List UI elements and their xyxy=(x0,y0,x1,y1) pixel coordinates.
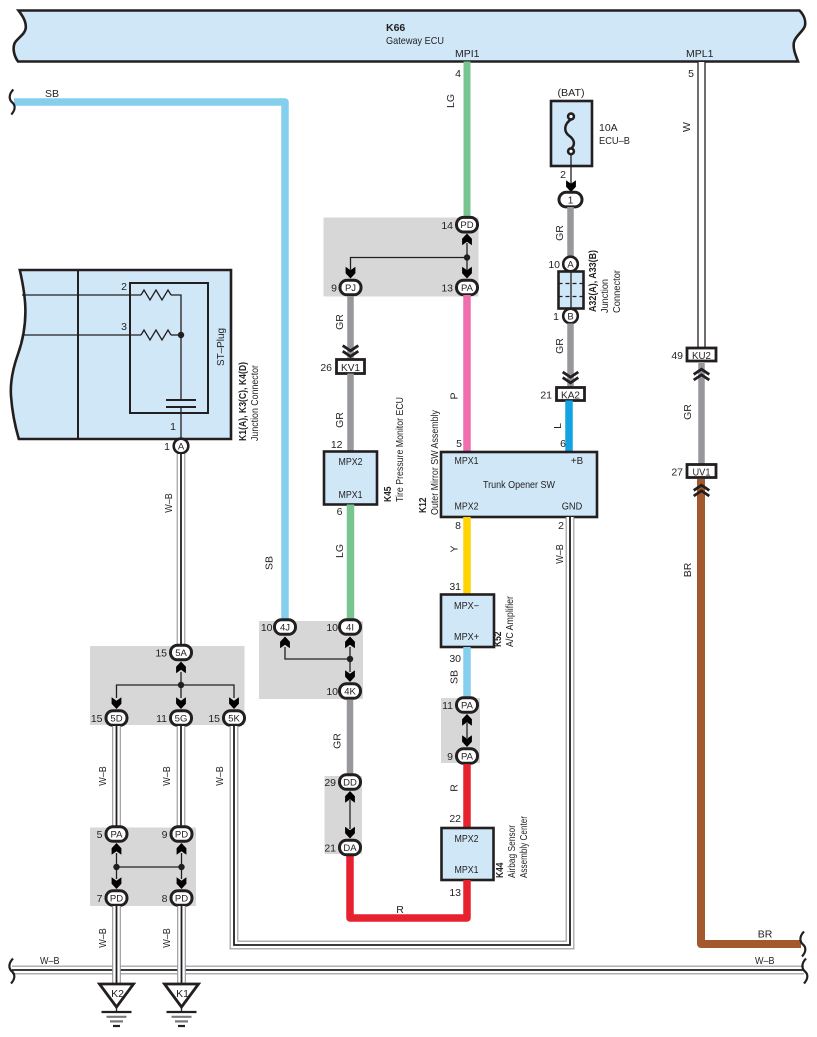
connector KA2 pin 21 xyxy=(540,388,584,402)
break squiggle bus left xyxy=(9,959,14,984)
connector oval PA pin 9 xyxy=(447,749,477,764)
gray junction block PA/PD/PD/PD xyxy=(90,828,196,907)
node junction dot right xyxy=(178,864,184,870)
wire W-B 5K to GND loop xyxy=(230,517,574,949)
switch K12 Trunk Opener SW xyxy=(417,409,597,517)
svg-text:Y: Y xyxy=(449,545,461,552)
svg-text:14: 14 xyxy=(441,220,453,232)
arrow down into PA lower xyxy=(462,735,472,747)
connector oval 1 xyxy=(559,192,582,207)
svg-text:MPX1: MPX1 xyxy=(455,456,479,467)
svg-text:B: B xyxy=(567,312,573,323)
svg-text:1: 1 xyxy=(568,196,574,207)
svg-text:3: 3 xyxy=(121,321,127,333)
connector oval PA pin 11 xyxy=(442,698,477,713)
svg-text:4I: 4I xyxy=(346,623,354,634)
svg-text:GR: GR xyxy=(554,225,566,241)
svg-text:2: 2 xyxy=(121,281,127,293)
svg-text:27: 27 xyxy=(671,467,683,479)
connector oval DA pin 21 xyxy=(324,840,360,855)
svg-text:BR: BR xyxy=(758,929,773,941)
svg-text:31: 31 xyxy=(449,581,461,593)
ECU K66 Gateway ECU band xyxy=(14,11,806,62)
component label A32(A), A33(B) Junction Connector xyxy=(587,250,623,313)
node junction dot xyxy=(178,332,184,338)
wire BR xyxy=(701,479,801,944)
svg-text:LG: LG xyxy=(334,544,346,558)
node junction dot left xyxy=(113,864,119,870)
svg-text:15: 15 xyxy=(208,713,220,725)
svg-text:Outer Mirror SW Assembly: Outer Mirror SW Assembly xyxy=(429,409,441,515)
svg-text:Gateway ECU: Gateway ECU xyxy=(386,35,444,47)
connector oval PD pin 7 xyxy=(97,891,127,906)
chevron below UV1 xyxy=(694,485,710,496)
arrow up into PD xyxy=(462,234,472,246)
arrow down into 5K xyxy=(229,697,239,709)
node line dot to PJ xyxy=(351,258,468,271)
branch line 5D 5G 5K xyxy=(117,685,235,698)
connector oval DD pin 29 xyxy=(324,775,360,790)
svg-text:26: 26 xyxy=(320,362,332,374)
svg-text:11: 11 xyxy=(156,713,167,725)
svg-text:5D: 5D xyxy=(110,714,122,725)
fuse 10A ECU-B xyxy=(551,87,630,166)
svg-text:P: P xyxy=(449,392,461,399)
svg-text:49: 49 xyxy=(671,350,683,362)
wire node to capacitor xyxy=(180,335,182,399)
svg-text:4K: 4K xyxy=(344,687,356,698)
arrow down into PJ xyxy=(346,267,356,279)
connector oval PA pin 13 xyxy=(441,280,477,295)
svg-text:MPX+: MPX+ xyxy=(454,632,479,643)
svg-text:K1: K1 xyxy=(176,988,189,1000)
svg-text:PD: PD xyxy=(175,830,188,841)
shaft DD to DA xyxy=(349,800,351,829)
connector oval PD pin 8 xyxy=(162,891,192,906)
svg-text:4: 4 xyxy=(455,68,461,80)
wire GR PJ to KV1 xyxy=(347,296,354,360)
svg-text:K45: K45 xyxy=(382,486,394,502)
ground bus W-B xyxy=(12,966,804,974)
svg-text:GR: GR xyxy=(682,404,694,420)
wire W-B 5G to PD xyxy=(177,726,185,826)
svg-text:SB: SB xyxy=(264,556,276,570)
gray junction block 4J/4I/4K xyxy=(259,621,363,699)
svg-text:12: 12 xyxy=(331,439,343,451)
svg-text:1: 1 xyxy=(553,311,559,323)
arrow down into DA xyxy=(345,827,355,839)
node junction dot 5A block xyxy=(178,682,184,688)
svg-text:MPX2: MPX2 xyxy=(455,502,479,513)
svg-text:PD: PD xyxy=(110,894,123,905)
svg-text:5: 5 xyxy=(688,68,694,80)
connector oval PD pin 14 xyxy=(441,217,477,232)
wire Y xyxy=(463,517,471,595)
svg-text:30: 30 xyxy=(449,653,461,665)
svg-text:5: 5 xyxy=(456,438,462,450)
connector circle A xyxy=(164,439,188,454)
svg-text:PA: PA xyxy=(111,830,124,841)
svg-text:GR: GR xyxy=(554,338,566,354)
junction connector A32(A), A33(B) xyxy=(559,272,584,309)
wire SB from gateway xyxy=(14,102,285,619)
svg-text:GR: GR xyxy=(334,412,346,428)
svg-text:PJ: PJ xyxy=(345,283,356,294)
svg-text:7: 7 xyxy=(97,893,103,905)
wire resistor2 to node xyxy=(171,295,181,335)
break squiggle BR right xyxy=(800,932,805,957)
svg-text:(BAT): (BAT) xyxy=(558,87,585,99)
svg-text:1: 1 xyxy=(164,441,170,453)
capacitor C xyxy=(166,400,196,407)
arrow up into 5A xyxy=(176,662,186,674)
svg-text:Airbag Sensor: Airbag Sensor xyxy=(506,825,518,878)
chevron into KA2 xyxy=(563,372,579,383)
connector oval 4I pin 10 xyxy=(326,620,360,635)
shaft PA to PA xyxy=(466,723,468,738)
svg-text:15: 15 xyxy=(91,713,103,725)
arrow down into 5G xyxy=(176,697,186,709)
svg-text:ECU–B: ECU–B xyxy=(599,135,630,147)
connector UV1 pin 27 xyxy=(671,465,716,479)
connector oval 5D pin 15 xyxy=(91,711,127,726)
svg-text:DA: DA xyxy=(343,843,357,854)
wire W-B A to 5A xyxy=(177,454,185,644)
connector oval 5G pin 11 xyxy=(156,711,191,726)
chevron into KV1 xyxy=(343,346,359,357)
resistor R (pin 2) xyxy=(141,290,171,300)
wire W from MPL1 pin 5 xyxy=(698,62,705,348)
svg-text:22: 22 xyxy=(449,813,461,825)
svg-text:W–B: W–B xyxy=(97,766,109,786)
svg-text:+B: +B xyxy=(571,456,584,467)
svg-text:R: R xyxy=(396,904,404,916)
svg-text:GND: GND xyxy=(562,502,583,513)
break squiggle SB left xyxy=(10,90,15,115)
svg-text:15: 15 xyxy=(155,648,167,660)
svg-text:ST–Plug: ST–Plug xyxy=(215,328,227,366)
connector oval 5A pin 15 xyxy=(155,645,191,660)
gray junction block DD/DA xyxy=(325,776,363,854)
wire GR B to KA2 xyxy=(567,324,574,388)
branch line PA-PD block xyxy=(117,866,182,868)
svg-text:W: W xyxy=(681,122,693,132)
svg-text:BR: BR xyxy=(682,562,694,577)
wire GR KV1 to K45 xyxy=(347,374,354,453)
svg-text:MPX2: MPX2 xyxy=(455,834,479,845)
arrow up into PD pin 9 xyxy=(177,843,187,855)
svg-text:KA2: KA2 xyxy=(561,390,580,402)
svg-text:PD: PD xyxy=(175,894,188,905)
svg-text:W–B: W–B xyxy=(554,544,566,564)
wire pin 2 lead xyxy=(22,294,141,296)
svg-text:13: 13 xyxy=(441,283,453,295)
connector oval PJ pin 9 xyxy=(331,280,361,295)
svg-text:PA: PA xyxy=(461,701,474,712)
svg-text:Connector: Connector xyxy=(611,270,623,313)
shaft PA to dot left xyxy=(116,853,118,879)
svg-text:K1(A), K3(C), K4(D): K1(A), K3(C), K4(D) xyxy=(237,362,249,441)
svg-text:13: 13 xyxy=(449,887,461,899)
arrow down into PA xyxy=(462,267,472,279)
component label K1(A), K3(C), K4(D) Junction Connector xyxy=(237,362,261,441)
svg-text:11: 11 xyxy=(442,700,453,712)
svg-text:R: R xyxy=(449,784,461,792)
connector KV1 pin 26 xyxy=(320,360,364,375)
arrow up into PA pin 5 xyxy=(112,843,122,855)
ST-Plug inner box xyxy=(130,283,227,413)
wire fuse to connector 1 xyxy=(570,154,572,185)
svg-text:9: 9 xyxy=(331,283,337,295)
connector circle B junction xyxy=(553,309,578,324)
arrow into connector 1 xyxy=(566,180,576,192)
svg-text:K2: K2 xyxy=(111,988,124,1000)
gray junction block PA/PA xyxy=(441,698,480,763)
junction connector K1(A), K3(C), K4(D) block xyxy=(11,270,231,439)
svg-text:MPX−: MPX− xyxy=(454,601,479,612)
connector circle A junction xyxy=(548,257,577,272)
svg-text:GR: GR xyxy=(332,733,344,749)
resistor R (pin 3) xyxy=(141,330,171,340)
gray junction block PD/PJ/PA xyxy=(324,218,479,297)
wire SB K52 to PA xyxy=(463,647,471,697)
svg-text:MPL1: MPL1 xyxy=(686,48,714,60)
break squiggle bus right xyxy=(802,959,807,984)
svg-text:Tire Pressure Monitor ECU: Tire Pressure Monitor ECU xyxy=(394,397,406,502)
svg-text:PA: PA xyxy=(461,283,474,294)
svg-text:PD: PD xyxy=(460,220,473,231)
arrow up into DD xyxy=(345,791,355,803)
wire P xyxy=(463,295,471,452)
svg-text:LG: LG xyxy=(445,94,457,108)
svg-text:9: 9 xyxy=(162,829,168,841)
connector oval 5K pin 15 xyxy=(208,711,244,726)
wire W-B PD8 to ground K1 xyxy=(178,906,186,984)
svg-text:MPX2: MPX2 xyxy=(339,457,363,468)
svg-text:1: 1 xyxy=(170,421,176,433)
node line PD to dot xyxy=(466,243,468,270)
connector KU2 pin 49 xyxy=(671,348,716,362)
wire capacitor to pin 1 xyxy=(180,408,182,438)
svg-text:8: 8 xyxy=(162,893,168,905)
svg-text:A: A xyxy=(567,260,574,271)
svg-text:Junction Connector: Junction Connector xyxy=(249,365,261,441)
node line 4J to dot xyxy=(285,647,350,659)
arrow up into 4J xyxy=(280,637,290,649)
svg-text:Junction: Junction xyxy=(599,279,611,313)
svg-text:L: L xyxy=(552,423,564,429)
svg-text:5K: 5K xyxy=(228,714,240,725)
svg-text:K12: K12 xyxy=(417,497,429,513)
wire GR KU2 to UV1 xyxy=(698,363,705,465)
svg-text:MPI1: MPI1 xyxy=(455,48,480,60)
arrow down into 4K xyxy=(345,670,355,682)
wire LG K45 to 4I xyxy=(347,505,355,620)
svg-text:MPX1: MPX1 xyxy=(339,490,363,501)
arrow up into PA upper xyxy=(462,714,472,726)
svg-text:2: 2 xyxy=(558,520,564,532)
node junction dot 4 block xyxy=(347,656,353,662)
svg-text:9: 9 xyxy=(447,751,453,763)
svg-text:GR: GR xyxy=(334,314,346,330)
svg-text:W–B: W–B xyxy=(214,766,226,786)
svg-text:10: 10 xyxy=(261,622,273,634)
wire resistor3 to node xyxy=(171,334,181,336)
wire W-B PD7 to ground K2 xyxy=(113,906,121,984)
svg-text:A: A xyxy=(178,442,185,453)
svg-text:6: 6 xyxy=(337,506,343,518)
wire L xyxy=(565,401,573,453)
wire GR fuse column upper xyxy=(567,207,574,257)
connector oval PD pin 9 xyxy=(162,827,192,842)
wire GR 4K to DD xyxy=(347,700,354,776)
svg-text:2: 2 xyxy=(560,169,566,181)
wire pin 3 lead xyxy=(22,334,141,336)
svg-text:Assembly Center: Assembly Center xyxy=(518,816,530,878)
svg-text:DD: DD xyxy=(343,778,357,789)
svg-text:K52: K52 xyxy=(492,631,504,647)
svg-text:5: 5 xyxy=(97,829,103,841)
svg-text:5A: 5A xyxy=(175,648,187,659)
ground K1 xyxy=(165,984,199,1026)
svg-text:21: 21 xyxy=(324,843,336,855)
arrow down into PD pin 8 xyxy=(177,877,187,889)
ground K2 xyxy=(100,984,134,1026)
chevron below KU2 xyxy=(694,369,710,380)
svg-text:KV1: KV1 xyxy=(341,362,360,374)
connector oval 4K pin 10 xyxy=(326,684,360,699)
gray junction block 5A/5D/5G/5K xyxy=(90,646,245,725)
arrow down into PD pin 7 xyxy=(112,877,122,889)
svg-text:SB: SB xyxy=(45,88,59,100)
svg-text:MPX1: MPX1 xyxy=(455,865,479,876)
wire R PA to K44 xyxy=(463,764,471,829)
svg-text:10A: 10A xyxy=(599,122,618,134)
svg-text:K44: K44 xyxy=(494,862,506,878)
arrow up into 4I xyxy=(345,637,355,649)
svg-text:W–B: W–B xyxy=(161,928,173,948)
svg-text:W–B: W–B xyxy=(161,766,173,786)
svg-text:W–B: W–B xyxy=(97,928,109,948)
amplifier K52 A/C Amplifier xyxy=(441,595,516,648)
svg-text:10: 10 xyxy=(548,259,560,271)
svg-text:W–B: W–B xyxy=(163,493,175,513)
connector oval 4J pin 10 xyxy=(261,620,296,635)
svg-text:W–B: W–B xyxy=(755,955,775,967)
svg-text:5G: 5G xyxy=(175,714,188,725)
svg-text:SB: SB xyxy=(449,670,461,684)
arrow down into 5D xyxy=(112,697,122,709)
svg-text:PA: PA xyxy=(461,752,474,763)
svg-text:29: 29 xyxy=(324,777,336,789)
svg-text:21: 21 xyxy=(540,390,552,402)
shaft 5A to dot xyxy=(180,672,182,698)
svg-text:A/C Amplifier: A/C Amplifier xyxy=(504,596,516,647)
svg-text:10: 10 xyxy=(326,686,338,698)
svg-text:Trunk Opener SW: Trunk Opener SW xyxy=(483,479,555,491)
connector oval PA pin 5 xyxy=(97,827,127,842)
node junction dot PD block xyxy=(464,254,470,260)
svg-text:4J: 4J xyxy=(280,623,290,634)
svg-text:W–B: W–B xyxy=(40,955,60,967)
sensor K44 Airbag Sensor Assembly Center xyxy=(442,816,531,880)
svg-text:8: 8 xyxy=(455,520,461,532)
svg-text:A32(A), A33(B): A32(A), A33(B) xyxy=(587,250,599,312)
svg-text:10: 10 xyxy=(326,622,338,634)
wire W-B 5D to PA xyxy=(113,726,121,826)
wire LG from MPI1 pin 4 xyxy=(464,62,471,220)
ECU K45 Tire Pressure Monitor ECU xyxy=(324,397,406,505)
svg-text:6: 6 xyxy=(560,438,566,450)
svg-text:K66: K66 xyxy=(386,22,405,34)
wire R K44 to DA xyxy=(350,856,467,918)
shaft PD to dot right xyxy=(181,853,183,879)
node line 4I to 4K xyxy=(349,647,351,672)
svg-text:KU2: KU2 xyxy=(692,350,711,362)
svg-text:UV1: UV1 xyxy=(693,467,711,479)
